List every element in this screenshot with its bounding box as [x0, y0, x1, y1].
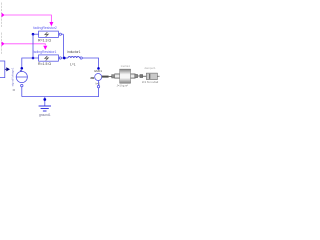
- junction at inductor left pin: [63, 57, 66, 60]
- svg-text:inductor1: inductor1: [67, 50, 80, 54]
- flange connector (damper left): [140, 75, 143, 78]
- svg-text:d=1 N.m.s/rad: d=1 N.m.s/rad: [142, 80, 159, 84]
- svg-text:R=1.3 Ω: R=1.3 Ω: [38, 38, 51, 42]
- svg-text:k=1: k=1: [96, 82, 101, 86]
- svg-text:L=L: L=L: [70, 62, 76, 66]
- svg-text:EMF1: EMF1: [94, 69, 102, 73]
- resistor fadingResistor1: [39, 55, 64, 61]
- svg-text:fadingResistor1: fadingResistor1: [33, 50, 57, 54]
- damper damper1: [143, 73, 160, 80]
- ground ground1: [39, 97, 51, 117]
- resistor fadingResistor2: [32, 31, 64, 37]
- svg-text:fadingResistor2: fadingResistor2: [33, 26, 57, 30]
- signal source block (clipped) with output connector: [0, 61, 10, 78]
- signal wire to fadingResistor2 (with arrowhead): [2, 13, 54, 27]
- inertia inertia1: [115, 69, 138, 83]
- svg-text:ground1: ground1: [39, 113, 51, 117]
- voltage source signalVoltage1: [13, 67, 28, 97]
- svg-text:signalVoltage1: signalVoltage1: [11, 67, 15, 86]
- svg-text:damper1: damper1: [144, 66, 155, 70]
- junction on positive net: [32, 57, 35, 60]
- wire: branch up to fadingResistor2 left pin: [32, 34, 34, 58]
- svg-text:inertia1: inertia1: [121, 64, 131, 68]
- wire: resistor right pins bus: [62, 34, 64, 58]
- shaft: EMF flange to inertia: [109, 76, 112, 78]
- junction at EMF top pin: [97, 67, 100, 70]
- inductor inductor1: [66, 57, 83, 60]
- wire: signalVoltage plus pin to resistors: [22, 58, 39, 68]
- signal source block edge (clipped at left, top): [0, 3, 2, 28]
- flange connector (inertia left): [112, 75, 115, 78]
- emf EMF1: [90, 74, 108, 88]
- wire: inductor to EMF top pin: [82, 58, 98, 68]
- svg-text:J=1 kg.m²: J=1 kg.m²: [117, 84, 129, 88]
- shaft: inertia to damper: [138, 75, 140, 77]
- svg-text:R=1.5 Ω: R=1.5 Ω: [38, 62, 51, 66]
- signal wire to fadingResistor1 (with arrowhead): [2, 42, 48, 50]
- signal source block edge (clipped at left, middle): [0, 33, 2, 55]
- wire: EMF bottom pin to ground bus: [22, 88, 99, 97]
